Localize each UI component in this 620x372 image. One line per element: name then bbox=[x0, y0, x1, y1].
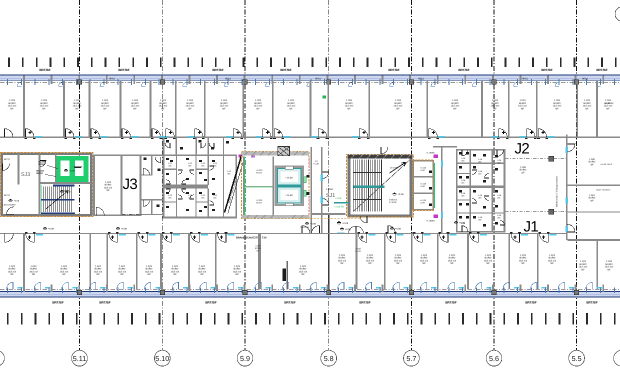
lobby top wall bbox=[311, 213, 346, 215]
bottom office room labels bbox=[8, 254, 557, 276]
svg-text:17,4/28: 17,4/28 bbox=[389, 201, 397, 204]
machine rooms left of shafts bbox=[244, 157, 274, 217]
grid axis line 5.10 bbox=[161, 0, 163, 351]
lobby entry doors pair bbox=[302, 226, 320, 234]
svg-text:Mietbereich 2 Teilungsvariante: Mietbereich 2 Teilungsvariante bbox=[556, 175, 559, 207]
bottom-left edge door bbox=[5, 234, 14, 243]
bottom dimension tick row bbox=[7, 313, 616, 324]
green symbol near 324,97 bbox=[323, 96, 326, 99]
SJ1 landing lines bbox=[353, 172, 381, 174]
right service core west wall bbox=[441, 146, 442, 233]
svg-text:STIGA 4: STIGA 4 bbox=[389, 198, 398, 201]
svg-text:BF/TF: BF/TF bbox=[4, 194, 11, 197]
mid service core outer walls bbox=[164, 137, 237, 217]
left edge door (top row) bbox=[5, 129, 14, 138]
svg-text:BRT/BF: BRT/BF bbox=[359, 301, 370, 305]
svg-text:+14.80: +14.80 bbox=[285, 194, 293, 197]
svg-text:J1: J1 bbox=[524, 219, 539, 236]
bottom corridor wall line bbox=[0, 233, 567, 235]
svg-text:BRT/BF: BRT/BF bbox=[52, 301, 63, 305]
svg-text:BRT/BF: BRT/BF bbox=[525, 301, 536, 305]
svg-text:+1.0BSK: +1.0BSK bbox=[426, 151, 435, 154]
top dimension tick row bbox=[8, 58, 617, 67]
grid bubble 5.9 bbox=[237, 350, 253, 366]
svg-text:+0.08: +0.08 bbox=[14, 200, 20, 203]
south facade wall band bbox=[0, 288, 620, 290]
grid bubble left edge (partial) bbox=[0, 350, 4, 366]
svg-text:Spate Tischlerei: Spate Tischlerei bbox=[596, 188, 611, 191]
facade window mullions top bbox=[7, 79, 615, 86]
svg-text:BRT/BF: BRT/BF bbox=[541, 68, 552, 72]
bottom office doors bbox=[25, 232, 557, 242]
main stair SJ1 walls bbox=[349, 156, 411, 216]
top office doors bbox=[25, 129, 555, 140]
stair SJ3 treads bbox=[41, 185, 71, 213]
south facade mullions bbox=[7, 287, 615, 292]
east wing partition walls bbox=[568, 185, 620, 187]
corridor wall y146.5 segment bbox=[433, 146, 457, 147]
left core inner walls bbox=[18, 154, 20, 185]
svg-text:5.5: 5.5 bbox=[572, 354, 582, 363]
grid bubble 5.6 bbox=[486, 350, 502, 366]
elevator doors top/bottom notches bbox=[285, 166, 293, 169]
svg-text:BRT/BF: BRT/BF bbox=[284, 301, 295, 305]
svg-text:BRT/BF: BRT/BF bbox=[280, 68, 291, 72]
svg-text:1.0231 BURO: 1.0231 BURO bbox=[2, 204, 16, 207]
spot elevation outside SJ1 bbox=[337, 221, 349, 225]
lobby fire dashed line bbox=[300, 217, 360, 219]
svg-text:+0.08: +0.08 bbox=[398, 193, 405, 196]
grid bubble 5.11 bbox=[72, 350, 88, 366]
fixture in green room bbox=[74, 167, 83, 169]
svg-text:5.8: 5.8 bbox=[324, 354, 334, 363]
svg-text:5.9: 5.9 bbox=[240, 354, 250, 363]
svg-text:BF/TF: BF/TF bbox=[4, 158, 11, 161]
grid bubble right edge (partial) bbox=[614, 350, 620, 366]
stair SJ3 navy rails bbox=[53, 184, 75, 186]
top corridor wall line bbox=[0, 136, 620, 138]
svg-text:+0.08: +0.08 bbox=[121, 228, 128, 231]
svg-text:+0.08: +0.08 bbox=[48, 228, 55, 231]
svg-text:+1.0BSK: +1.0BSK bbox=[426, 220, 435, 223]
lobby west wall bbox=[311, 147, 313, 234]
svg-text:BRT/BF: BRT/BF bbox=[212, 68, 223, 72]
SJ1 up arrow bbox=[390, 162, 406, 173]
SJ1 bottom door bbox=[360, 216, 367, 223]
south facade column stubs bbox=[23, 285, 604, 292]
grid axis line 5.5 bbox=[576, 0, 578, 351]
grid bubble top right (partial) bbox=[615, 7, 620, 22]
svg-text:9041: 9041 bbox=[582, 78, 588, 81]
east wing doors bbox=[568, 144, 576, 232]
corridor-row cell fixtures bbox=[166, 140, 229, 150]
east wing top partition bbox=[576, 81, 578, 138]
svg-text:+14.80 OKFF: +14.80 OKFF bbox=[600, 163, 613, 166]
svg-text:BRT/BF: BRT/BF bbox=[458, 68, 469, 72]
magenta dashed riser line bbox=[308, 158, 310, 174]
svg-text:SJ3: SJ3 bbox=[21, 172, 30, 178]
SJ1 fire outline bbox=[347, 154, 414, 217]
svg-text:BRT/BF: BRT/BF bbox=[205, 301, 216, 305]
left core doors bbox=[3, 161, 47, 215]
svg-text:1.0SJ1: 1.0SJ1 bbox=[326, 188, 334, 191]
small rooms x141-163 bottom bbox=[141, 200, 163, 215]
svg-text:BRT/BF: BRT/BF bbox=[388, 68, 399, 72]
mid core tiny labels bbox=[168, 162, 232, 203]
svg-text:+14.80 OK: +14.80 OK bbox=[604, 102, 614, 105]
elevator cell 1 bbox=[278, 169, 301, 186]
svg-text:+0.08: +0.08 bbox=[342, 222, 349, 225]
svg-text:+0.08: +0.08 bbox=[459, 222, 466, 225]
svg-text:5.10: 5.10 bbox=[155, 354, 169, 363]
grid axis line 5.6 bbox=[493, 0, 495, 351]
SJ1 treads bbox=[353, 160, 381, 212]
J2 open office flex walls (dashed) bbox=[506, 158, 567, 160]
grid bubble 5.10 bbox=[154, 350, 170, 366]
lobby wall on grid 5.8 bbox=[328, 213, 330, 290]
elevator compartment top hatched wall bbox=[241, 151, 308, 155]
svg-text:+4.08: +4.08 bbox=[335, 197, 342, 200]
grid bubble 5.7 bbox=[404, 350, 420, 366]
magenta service marker 1 bbox=[238, 154, 242, 157]
door above duct rooms bbox=[381, 147, 395, 233]
facade column stubs top bbox=[23, 76, 604, 84]
lobby east wall with door sidelights bbox=[321, 147, 323, 234]
SJ1 landing labels bbox=[392, 193, 404, 197]
elevator shaft block walls bbox=[275, 165, 304, 206]
svg-text:BRT/BF: BRT/BF bbox=[99, 301, 110, 305]
svg-text:+14.80: +14.80 bbox=[285, 176, 293, 179]
elevator cell 2 bbox=[278, 187, 301, 203]
grid axis line 5.8 bbox=[328, 0, 330, 351]
svg-text:9041: 9041 bbox=[418, 78, 424, 81]
svg-text:BRT/BF: BRT/BF bbox=[586, 301, 597, 305]
mid core cell partitions bbox=[176, 155, 177, 185]
svg-text:+0.08: +0.08 bbox=[310, 223, 317, 226]
bottom office partitions bbox=[23, 234, 538, 289]
spot levels on bottom corridor bbox=[43, 227, 55, 231]
elevator divider bbox=[277, 185, 302, 187]
right core fixtures bbox=[459, 152, 498, 226]
svg-text:BRT/BF: BRT/BF bbox=[118, 68, 129, 72]
top office partitions bbox=[23, 81, 598, 138]
green call buttons right of shaft bbox=[304, 177, 307, 183]
svg-text:J3: J3 bbox=[123, 176, 138, 193]
svg-text:BRT/BF: BRT/BF bbox=[39, 68, 50, 72]
exterior wall band (north facade) bbox=[0, 76, 620, 81]
grid axis line 5.7 bbox=[410, 0, 412, 351]
svg-text:BRT/BF: BRT/BF bbox=[445, 301, 456, 305]
grid column markers bottom facade bbox=[77, 290, 81, 295]
svg-text:9041: 9041 bbox=[109, 78, 115, 81]
svg-text:+4.08 FB: +4.08 FB bbox=[334, 206, 344, 209]
flex wall connector squares bbox=[549, 156, 554, 161]
svg-text:9041: 9041 bbox=[522, 78, 528, 81]
mid core thick floor-slab wall bbox=[164, 184, 209, 188]
escape route diagonal annotation bbox=[225, 156, 245, 214]
mid core cell doors bbox=[166, 166, 214, 205]
facade axis dashed line (top) bbox=[0, 82, 620, 84]
svg-text:J2: J2 bbox=[515, 141, 530, 158]
elevator compartment bottom wall bbox=[241, 215, 308, 219]
left core fire outline bbox=[0, 152, 93, 216]
svg-text:BOCK: BOCK bbox=[37, 172, 44, 175]
dashed line below J3 rooms bbox=[122, 213, 163, 215]
small rooms x141-163 top bbox=[141, 155, 163, 175]
svg-text:+0.08: +0.08 bbox=[395, 228, 402, 231]
svg-text:+0.08: +0.08 bbox=[69, 169, 75, 172]
svg-text:+0.08FLUR: +0.08FLUR bbox=[355, 248, 361, 254]
left stair core SJ3: fire compartment outline bbox=[2, 154, 91, 215]
grid axis line 5.11 bbox=[79, 0, 81, 351]
svg-text:BRT/BF: BRT/BF bbox=[596, 68, 607, 72]
svg-text:5.7: 5.7 bbox=[406, 354, 416, 363]
grid bubble 5.5 bbox=[569, 350, 585, 366]
south facade window doors bbox=[7, 282, 602, 288]
elevator compartment fire outline bbox=[241, 151, 308, 218]
svg-text:9041: 9041 bbox=[225, 78, 231, 81]
svg-text:SJ1: SJ1 bbox=[326, 193, 335, 199]
right service core cells bbox=[457, 150, 505, 232]
svg-text:+0.08: +0.08 bbox=[65, 191, 71, 194]
grid axis line 5.9 bbox=[244, 0, 246, 351]
hatched shaft square bbox=[278, 147, 290, 156]
grid column markers on facade bbox=[77, 80, 81, 85]
bottom east rooms partition bbox=[596, 241, 598, 289]
lobby corridor cyan sidelight bbox=[337, 233, 345, 235]
svg-text:9041: 9041 bbox=[315, 78, 321, 81]
magenta markers beside duct rooms bbox=[434, 154, 438, 157]
svg-text:25 STG: 25 STG bbox=[390, 167, 398, 170]
duct rooms right of SJ1 bbox=[413, 161, 433, 210]
corridor double door at lobby bbox=[349, 226, 364, 234]
rooms right of left core bbox=[93, 155, 95, 216]
top office room labels bbox=[8, 99, 613, 110]
stair SJ3 run arrow bbox=[46, 191, 68, 210]
svg-text:BRANDSCHUTZTUR T30: BRANDSCHUTZTUR T30 bbox=[236, 237, 267, 240]
elevator room (green) in left core bbox=[57, 156, 88, 181]
right core doors bbox=[462, 150, 505, 232]
SJ1 hatched top wall bbox=[347, 155, 412, 159]
door into J3 hall room bbox=[96, 207, 104, 215]
SJ1 section diagonal bbox=[354, 160, 410, 211]
grid bubble 5.8 bbox=[321, 350, 337, 366]
mid core WC fixtures bbox=[166, 158, 215, 212]
magenta service marker 2 bbox=[251, 154, 255, 157]
SJ1 teal guard rail bbox=[353, 186, 384, 188]
right core tiny labels bbox=[461, 157, 502, 227]
partial wall fragment in bottom room bbox=[286, 261, 288, 289]
east wing corridor wall bbox=[566, 135, 568, 241]
svg-text:5.11: 5.11 bbox=[73, 354, 86, 363]
svg-text:5.6: 5.6 bbox=[489, 354, 499, 363]
mid core corridor-row cells bbox=[176, 137, 177, 155]
